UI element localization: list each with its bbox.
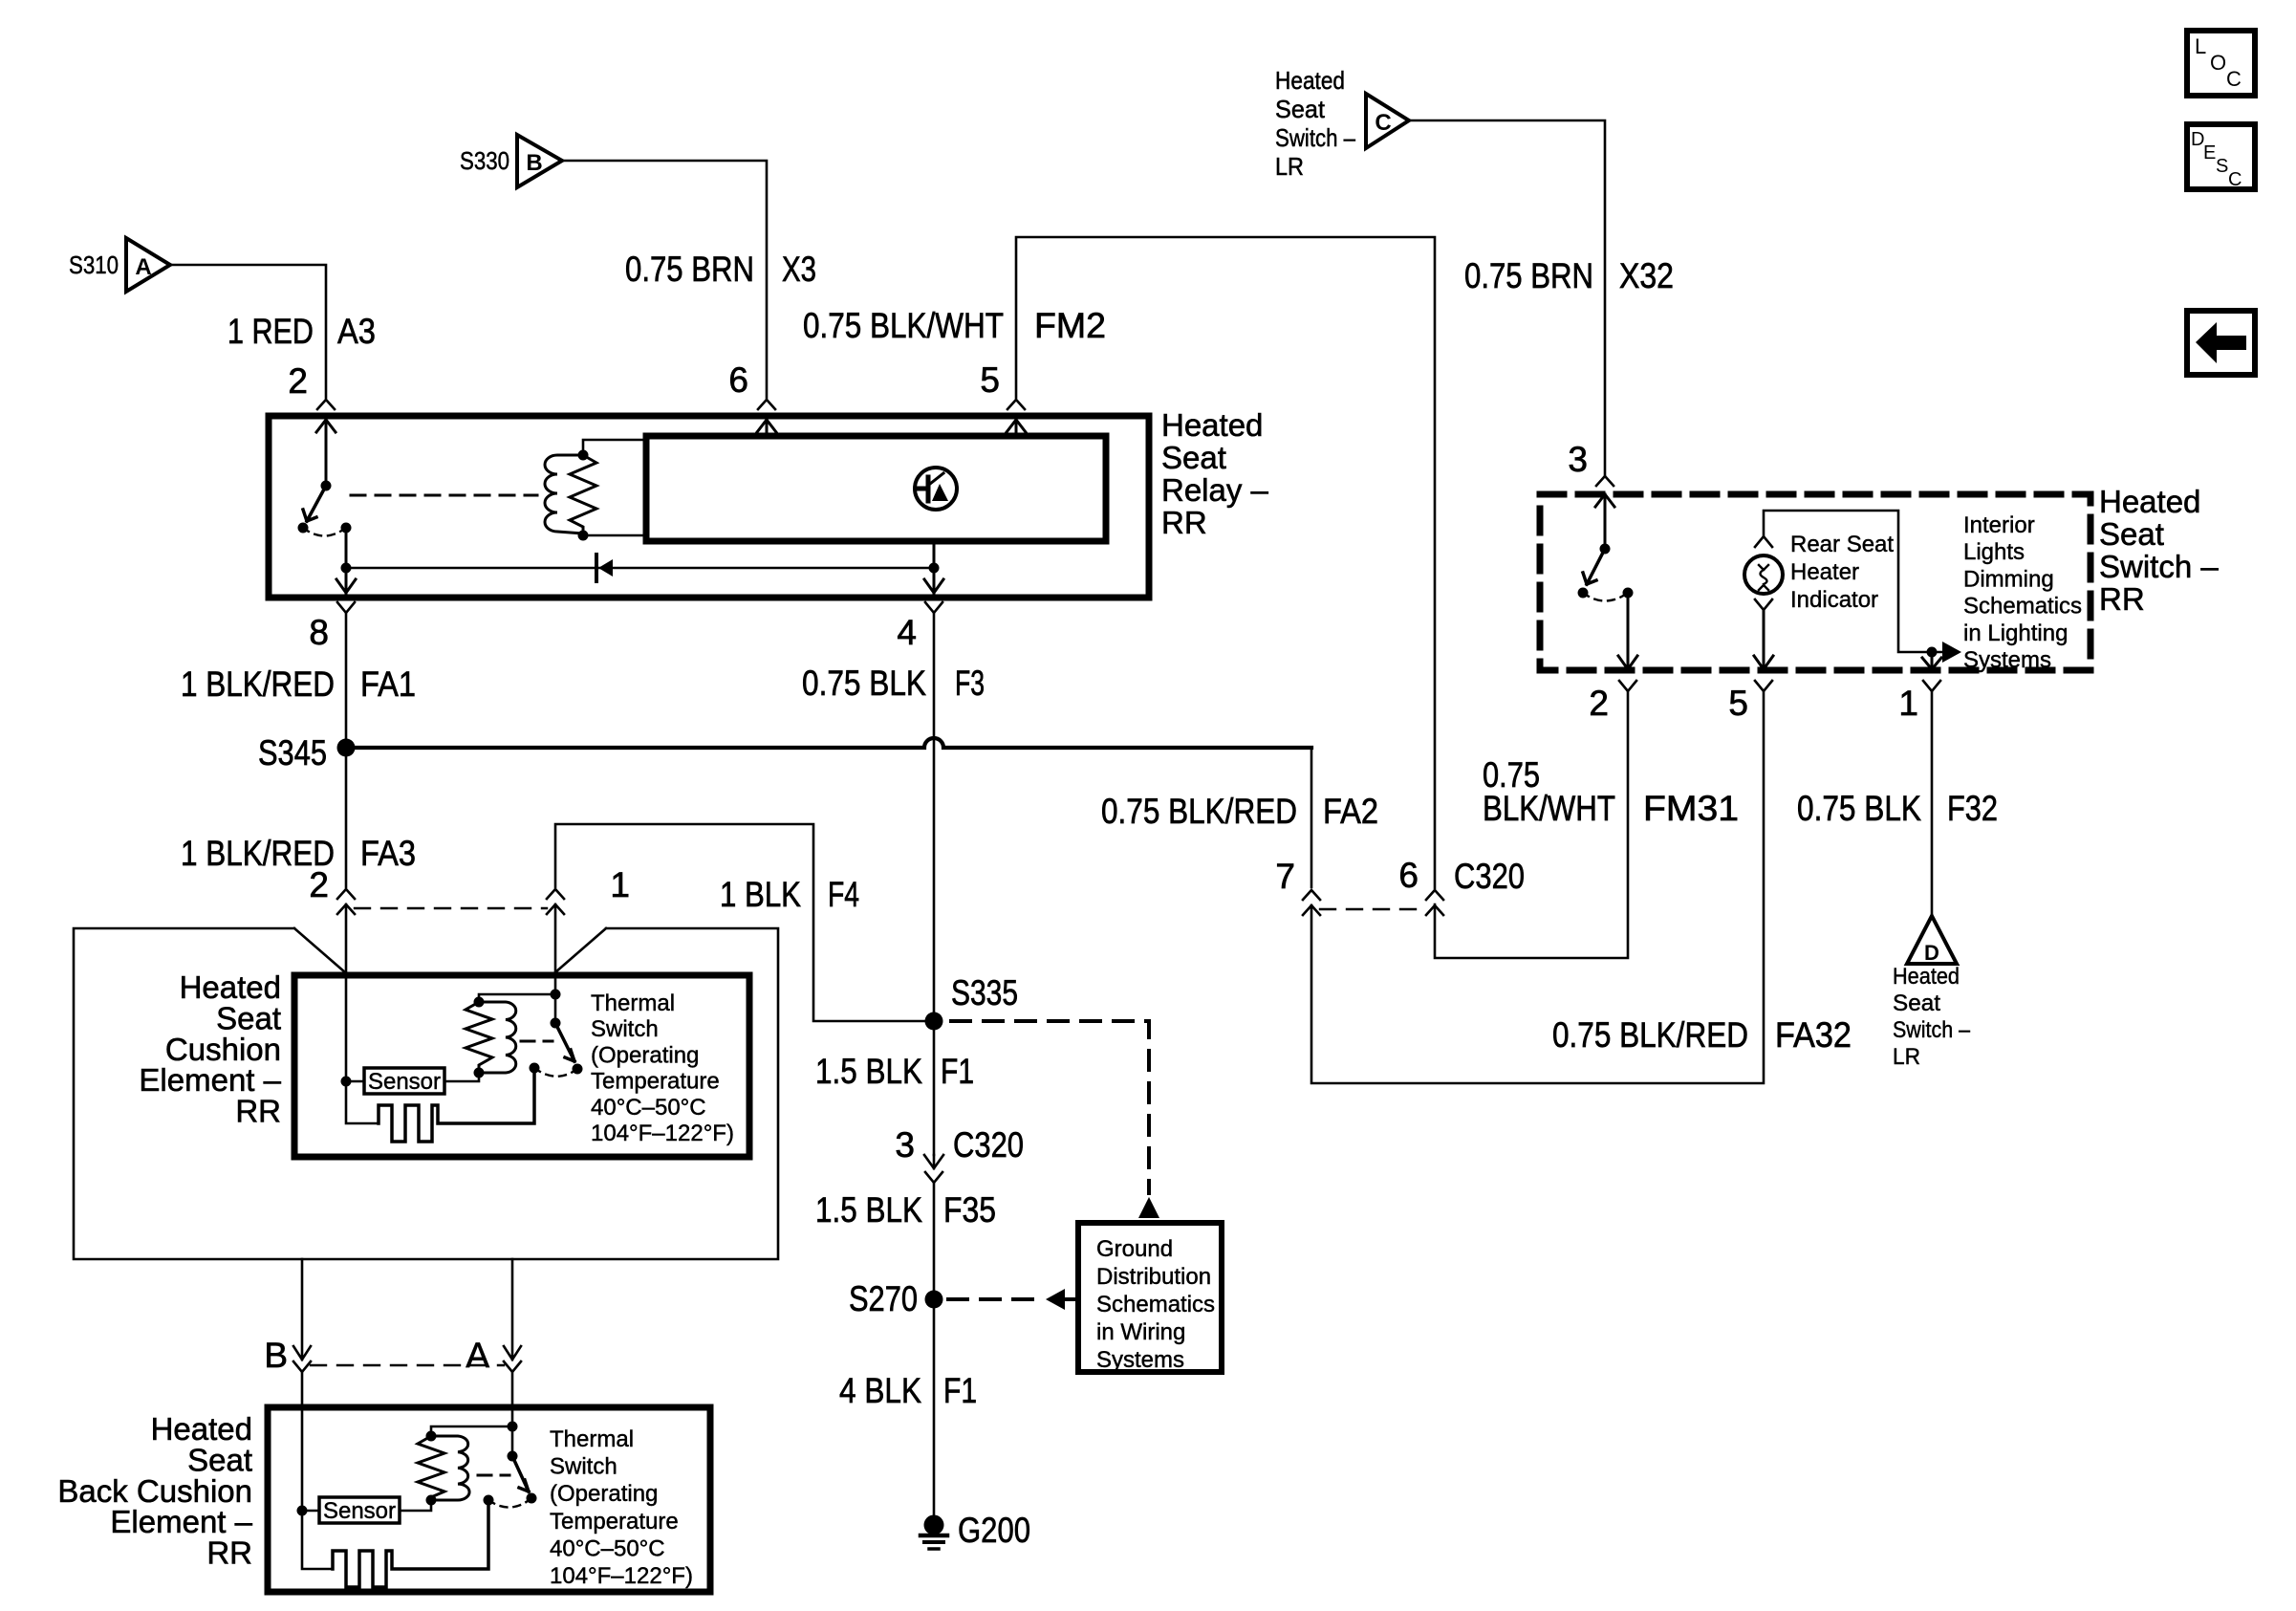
svg-text:FA1: FA1 <box>360 664 416 704</box>
relay pin6 internal arrow <box>757 420 776 434</box>
chevron below A arrow <box>504 1361 521 1372</box>
element1 sensor left node <box>341 1077 352 1087</box>
element1 lever end node <box>573 1064 583 1075</box>
element2 pin A wire <box>511 1372 514 1456</box>
svg-text:7: 7 <box>1275 857 1295 896</box>
relay coil top lead <box>583 440 646 455</box>
svg-text:1.5 BLK: 1.5 BLK <box>815 1190 922 1230</box>
svg-text:S270: S270 <box>849 1279 918 1318</box>
svg-text:F35: F35 <box>943 1190 996 1230</box>
svg-text:G200: G200 <box>958 1511 1030 1550</box>
switch fixed contact node <box>1600 544 1611 555</box>
svg-text:1 BLK/RED: 1 BLK/RED <box>181 664 335 704</box>
wire F4: element pin 1 up over to S335 <box>555 824 925 1021</box>
label 0.75 BRN X32 <box>1464 256 1674 295</box>
connector C320 pin 7 arrows <box>1303 890 1320 915</box>
svg-text:F3: F3 <box>955 664 985 703</box>
connector chevrons element pin 1 <box>547 889 564 975</box>
svg-text:2: 2 <box>1589 684 1609 723</box>
svg-text:S310: S310 <box>69 250 119 279</box>
element2 thermal coil top node <box>426 1431 437 1442</box>
relay switch output node <box>341 523 352 533</box>
svg-text:2: 2 <box>288 361 308 401</box>
svg-text:B: B <box>526 150 542 176</box>
wire FM2: relay pin 5 up and right to C320 pin 6 <box>1016 237 1435 888</box>
svg-text:1: 1 <box>610 865 630 904</box>
svg-text:0.75 BLK/RED: 0.75 BLK/RED <box>1101 792 1297 831</box>
svg-text:0.75 BLK/WHT: 0.75 BLK/WHT <box>803 306 1004 345</box>
element1 thermal inductor bumps <box>479 1002 516 1073</box>
relay internal diode line <box>346 567 934 570</box>
chevron below switch pin 2 <box>1619 681 1636 691</box>
wire FA3: S345 down to element pin 2 <box>345 756 348 887</box>
dashed switch box: Heated Seat Switch - RR <box>1540 494 2090 670</box>
element2 thermal inductor bumps <box>431 1436 469 1500</box>
wire F1: S335 down to C320 pin 3 <box>933 1030 936 1155</box>
svg-text:C320: C320 <box>1454 857 1525 896</box>
svg-text:L: L <box>2195 34 2206 58</box>
connector C320 pin 3 arrows <box>924 1155 943 1183</box>
chevron at relay pin 5 <box>1007 400 1025 409</box>
svg-text:4: 4 <box>897 613 917 652</box>
relay coil bottom lead <box>583 534 646 537</box>
svg-text:B: B <box>264 1336 288 1375</box>
element2 sensor leads <box>302 1500 431 1511</box>
element2 pin B wire to sensor <box>302 1372 333 1569</box>
svg-text:5: 5 <box>980 360 1000 400</box>
junction dot on pin8 stem (diode line) <box>341 563 352 574</box>
svg-text:E: E <box>2203 142 2216 163</box>
relay pin5 internal arrow <box>1007 420 1026 434</box>
svg-text:0.75 BLK/RED: 0.75 BLK/RED <box>1552 1015 1748 1055</box>
svg-text:4 BLK: 4 BLK <box>839 1371 921 1410</box>
splice S345 <box>337 739 356 757</box>
svg-text:C320: C320 <box>953 1125 1024 1165</box>
element1 thermal switch pivot node <box>551 1018 561 1029</box>
relay switch dashed throw arc <box>303 528 346 536</box>
dashed reference S270 to ground distribution <box>948 1297 1040 1301</box>
wire S345 to FA2 with hop over F3 <box>355 738 1311 748</box>
label 1.5 BLK F1 <box>815 1052 974 1091</box>
wire F3: relay pin 4 to S335 <box>933 614 936 1012</box>
label 0.75 BLK/WHT FM31 <box>1483 755 1739 828</box>
label 0.75 BLK/RED FA2 <box>1101 792 1378 831</box>
element2 thermal switch lever <box>512 1456 529 1491</box>
svg-text:FA32: FA32 <box>1775 1015 1852 1055</box>
switch pin5 internal wire with arrow <box>1754 610 1773 669</box>
svg-text:C: C <box>2228 169 2242 190</box>
switch common node <box>1578 588 1589 599</box>
svg-text:5: 5 <box>1728 684 1748 723</box>
element2 heater square wave <box>333 1500 488 1587</box>
element2 dashed throw arc <box>488 1498 531 1508</box>
element2 sensor box <box>319 1497 400 1523</box>
svg-text:FM2: FM2 <box>1034 306 1106 345</box>
element2 moving contact node <box>484 1495 494 1506</box>
element1 thermal coil bottom node <box>474 1068 485 1078</box>
ground G200 <box>921 1515 947 1550</box>
svg-text:FM31: FM31 <box>1643 789 1739 828</box>
element1 sensor box <box>364 1068 444 1094</box>
svg-text:0.75 BRN: 0.75 BRN <box>1464 256 1593 295</box>
link arrow to box <box>1065 1297 1075 1301</box>
chevron below switch pin 5 <box>1755 681 1772 691</box>
wire A: wrapper to back element <box>504 1259 521 1360</box>
switch pin2 internal wire with arrow <box>1618 593 1637 669</box>
wire B: wrapper to back element <box>293 1259 311 1360</box>
relay coil inductor bumps <box>545 455 583 533</box>
svg-text:C: C <box>2226 67 2242 91</box>
arrow into ground distribution box <box>1138 1197 1159 1218</box>
relay coil resistor zigzag <box>570 455 596 533</box>
relay switch common node <box>298 523 309 533</box>
DESC reference box <box>2187 124 2255 190</box>
element1 thermal switch lever <box>555 1023 574 1061</box>
ground distribution schematics box <box>1078 1223 1222 1372</box>
svg-text:A: A <box>135 254 151 280</box>
svg-text:6: 6 <box>728 360 748 400</box>
svg-text:D: D <box>1924 941 1939 965</box>
element2 thermal switch pivot node <box>508 1451 518 1462</box>
label 1.5 BLK F35 <box>815 1190 996 1230</box>
element1 dashed throw arc <box>534 1068 577 1077</box>
wire FA32: C320 pin 7 down and over to switch pin 5 <box>1311 691 1764 1083</box>
element box: Heated Seat Cushion Element - RR <box>294 975 749 1157</box>
wire FA1: relay pin 8 to S345 <box>345 614 348 739</box>
element1 pin1 wire <box>554 975 557 1023</box>
element1 heater square wave <box>379 1068 534 1142</box>
connector triangle C (Heated Seat Switch - LR) <box>1366 94 1409 148</box>
wire A3: S310 to relay pin 2 <box>170 265 326 398</box>
svg-text:S335: S335 <box>951 973 1018 1012</box>
label 4 BLK F1 <box>839 1371 977 1410</box>
svg-text:C: C <box>1375 110 1391 136</box>
element1 thermal coil top node <box>474 997 485 1008</box>
element1 pin2 wire to sensor <box>346 975 379 1123</box>
diode D1 <box>596 555 613 581</box>
label 0.75 BLK F32 <box>1797 789 1998 828</box>
svg-text:1: 1 <box>1898 684 1918 723</box>
chevron below switch pin 1 <box>1923 681 1940 691</box>
svg-text:2: 2 <box>309 865 329 904</box>
relay pin8 internal wire with arrow <box>336 528 356 593</box>
svg-text:BLK/WHT: BLK/WHT <box>1483 789 1615 828</box>
wire FM31: switch pin 2 down to C320 pin 6 <box>1435 691 1628 958</box>
connector C320 pin 6 arrows <box>1426 890 1443 915</box>
relay switch fixed contact node <box>321 481 332 491</box>
relay coil bottom node <box>578 531 589 541</box>
svg-text:A: A <box>466 1336 489 1375</box>
connector triangle S310 A <box>126 238 170 292</box>
element2 thermal coil top lead <box>431 1426 512 1436</box>
svg-text:1 RED: 1 RED <box>227 312 314 351</box>
arrow to interior lights dimming <box>1942 642 1961 663</box>
LOC reference box <box>2187 31 2255 96</box>
indicator lamp: Rear Seat Heater Indicator <box>1744 555 1783 594</box>
chevron at switch pin 3 <box>1596 476 1614 486</box>
label 0.75 BLK/WHT FM2 <box>803 306 1106 345</box>
splice S335 <box>925 1012 943 1031</box>
svg-text:Sensor: Sensor <box>323 1498 396 1524</box>
svg-text:F32: F32 <box>1947 789 1998 828</box>
arrow toward S270 <box>1046 1289 1065 1310</box>
element1 coil-switch dashed linkage <box>521 1040 552 1043</box>
switch dashed throw arc <box>1583 593 1628 601</box>
element2 thermal resistor zigzag <box>418 1436 444 1500</box>
svg-text:X3: X3 <box>782 250 816 289</box>
svg-text:FA2: FA2 <box>1323 792 1378 831</box>
junction node on pin1 stem <box>1927 647 1938 658</box>
chevron below relay pin 8 <box>337 602 355 613</box>
svg-text:FA3: FA3 <box>360 834 416 873</box>
relay pin4 internal wire with arrow <box>924 543 943 593</box>
svg-text:8: 8 <box>309 613 329 652</box>
relay pin2 internal arrow <box>316 420 336 481</box>
svg-text:F4: F4 <box>828 875 859 914</box>
svg-text:O: O <box>2210 51 2226 75</box>
element1 thermal coil top lead <box>479 994 555 1002</box>
svg-text:X32: X32 <box>1619 256 1674 295</box>
chevron above lamp <box>1755 536 1772 547</box>
label 0.75 BLK/RED FA32 <box>1552 1015 1852 1055</box>
element1 sensor leads <box>346 1073 479 1081</box>
chevron below relay pin 4 <box>925 602 942 613</box>
element1 thermal resistor zigzag <box>466 1002 492 1073</box>
svg-text:1 BLK: 1 BLK <box>720 875 801 914</box>
dashed connector jump C320 <box>1320 908 1426 910</box>
wire X32: C to switch pin 3 <box>1409 120 1605 475</box>
svg-text:3: 3 <box>895 1125 915 1165</box>
wire lamp top loop to dimming node <box>1764 511 1950 652</box>
transistor U1 in relay module <box>915 468 957 510</box>
dashed connector jump at B-A <box>311 1364 504 1366</box>
splice S270 <box>925 1291 943 1309</box>
svg-text:3: 3 <box>1568 440 1588 479</box>
relay box: Heated Seat Relay - RR <box>269 416 1149 598</box>
svg-text:S330: S330 <box>460 146 509 175</box>
chevron below lamp <box>1755 599 1772 610</box>
switch pin1 internal wire with arrow <box>1922 652 1941 669</box>
back arrow box <box>2187 311 2255 375</box>
connector chevrons element pin 2 <box>337 889 355 975</box>
element2 sensor left node <box>297 1506 308 1516</box>
svg-text:0.75 BLK: 0.75 BLK <box>802 664 926 703</box>
element2 lever end node <box>527 1493 537 1504</box>
label 0.75 BLK F3 <box>802 664 985 703</box>
element2 pin A junction node <box>508 1422 518 1432</box>
svg-text:0.75 BRN: 0.75 BRN <box>625 250 754 289</box>
junction dot on pin4 stem <box>929 563 940 574</box>
chevron below B arrow <box>293 1361 311 1372</box>
label 0.75 BRN X3 <box>625 250 816 289</box>
element1 pin1 junction node <box>551 990 561 1000</box>
connector triangle S330 B <box>517 135 562 187</box>
chevron at relay pin 6 <box>758 400 775 409</box>
chevron at relay pin 2 <box>317 400 335 409</box>
svg-text:0.75 BLK: 0.75 BLK <box>1797 789 1921 828</box>
label 1 BLK/RED FA3 <box>181 834 416 873</box>
wire F35: C320 pin 3 to S270 <box>933 1183 936 1291</box>
relay switch lever <box>303 486 326 521</box>
relay inner module box <box>646 436 1106 541</box>
svg-text:A3: A3 <box>337 312 376 351</box>
svg-text:F1: F1 <box>943 1371 977 1410</box>
wire 4 BLK F1: S270 to G200 <box>933 1308 936 1516</box>
switch pin3 internal arrow <box>1595 494 1614 544</box>
relay coil top node <box>578 450 589 461</box>
element2 coil-switch dashed linkage <box>478 1474 509 1477</box>
svg-text:S: S <box>2216 156 2228 177</box>
svg-text:F1: F1 <box>941 1052 974 1091</box>
wire F32: switch pin 1 down to D <box>1931 691 1934 916</box>
svg-text:Sensor: Sensor <box>368 1069 441 1095</box>
switch output node <box>1623 588 1634 599</box>
relay coil-switch dashed linkage <box>351 494 537 497</box>
connector triangle D (Heated Seat Switch - LR) <box>1907 916 1957 965</box>
element1 moving contact node <box>530 1063 540 1074</box>
svg-text:1.5 BLK: 1.5 BLK <box>815 1052 922 1091</box>
wire X3: S330 to relay pin 6 <box>562 161 767 398</box>
element2 thermal coil bottom node <box>426 1495 437 1506</box>
dashed connector jump at element pins <box>355 907 547 909</box>
wire FA2: S345 corner down to C320 pin 7 <box>1310 748 1313 887</box>
element box: Heated Seat Back Cushion Element - RR <box>268 1407 710 1592</box>
label 1 BLK F4 <box>720 875 859 914</box>
switch lever <box>1583 549 1605 584</box>
svg-text:S345: S345 <box>258 733 327 773</box>
label 1 RED A3 <box>227 312 376 351</box>
svg-text:6: 6 <box>1398 856 1419 895</box>
dashed reference S335 to ground distribution <box>951 1021 1149 1193</box>
label 1 BLK/RED FA1 <box>181 664 416 704</box>
cushion element outer wrapper <box>74 928 778 1259</box>
